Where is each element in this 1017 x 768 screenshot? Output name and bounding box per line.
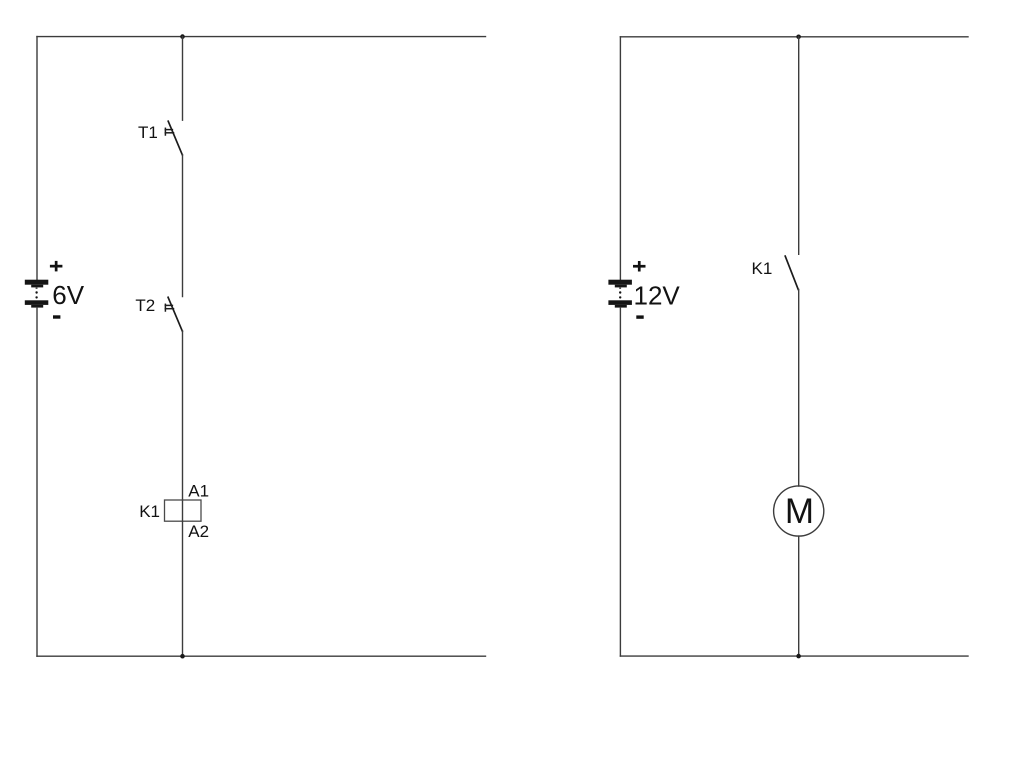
svg-text:6V: 6V	[52, 280, 84, 310]
switch T2 blade (normally open pushbutton)	[168, 297, 182, 331]
svg-text:K1: K1	[139, 502, 160, 521]
wire: K1 contact to motor	[798, 289, 800, 486]
node: motor branch bottom junction	[796, 654, 801, 659]
battery B1 6V	[25, 280, 49, 308]
svg-text:M: M	[785, 492, 814, 531]
battery B2 12V	[608, 280, 632, 308]
wire: motor branch from top rail to K1 contact	[798, 37, 800, 255]
label: battery minus sign (right)	[636, 315, 643, 318]
wire: right circuit bottom rail	[620, 655, 968, 657]
switch T1 blade (normally open pushbutton)	[168, 121, 182, 155]
motor M1 circle	[774, 486, 824, 536]
wire: right circuit left vertical, battery top leg	[619, 37, 621, 280]
node: control branch bottom junction	[180, 654, 185, 659]
svg-text:12V: 12V	[634, 280, 681, 310]
switch T1 pushbutton actuator	[165, 128, 173, 135]
wire: segment between T1 and T2	[182, 155, 184, 297]
wire: left circuit top rail	[37, 36, 486, 38]
wire: left circuit left vertical, battery top leg	[36, 37, 38, 280]
svg-text:A2: A2	[188, 522, 209, 541]
wire: control branch from top rail to T1	[182, 37, 184, 121]
svg-text:K1: K1	[752, 259, 773, 278]
svg-text:A1: A1	[188, 481, 209, 500]
wire: left circuit bottom rail	[37, 655, 486, 657]
wire: battery bottom leg to bottom rail	[36, 308, 38, 657]
svg-text:T2: T2	[135, 296, 155, 315]
wire: right circuit top rail	[620, 36, 968, 38]
relay contact K1 blade (normally open)	[785, 256, 798, 289]
relay coil K1 body	[165, 500, 202, 521]
wire: through relay coil body	[182, 500, 184, 521]
svg-text:T1: T1	[138, 123, 158, 142]
wire: coil to bottom rail	[182, 521, 184, 656]
wire: right battery bottom leg	[619, 308, 621, 656]
label: battery plus sign	[50, 261, 63, 272]
wire: segment T2 to relay coil	[182, 331, 184, 500]
node: motor branch top junction	[796, 35, 801, 40]
switch T2 pushbutton actuator	[165, 304, 173, 311]
node: control branch top junction	[180, 34, 185, 39]
label: battery plus sign (right)	[633, 261, 646, 272]
label: battery minus sign	[53, 315, 60, 318]
wire: motor to bottom rail	[798, 536, 800, 656]
